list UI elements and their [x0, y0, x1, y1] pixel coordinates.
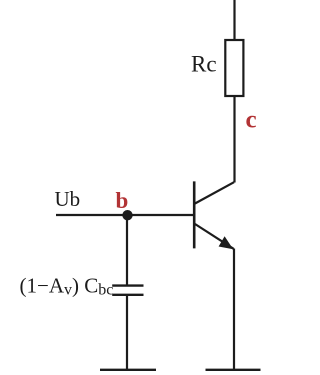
ground	[206, 369, 261, 371]
svg-text:Ub: Ub	[55, 187, 81, 211]
wire	[233, 0, 235, 40]
svg-text:Rc: Rc	[191, 52, 217, 77]
svg-text:(1−Av) Cbc: (1−Av) Cbc	[20, 274, 114, 299]
svg-text:c: c	[246, 107, 257, 134]
wire	[126, 215, 128, 286]
wire	[126, 295, 128, 370]
transistor Q1	[194, 181, 234, 249]
ground	[100, 369, 156, 371]
node b	[122, 210, 132, 220]
wire	[233, 249, 235, 370]
wire	[233, 96, 235, 183]
capacitor Cbc	[112, 286, 143, 295]
wire	[56, 214, 194, 216]
resistor Rc	[225, 40, 243, 96]
svg-text:b: b	[116, 188, 129, 213]
